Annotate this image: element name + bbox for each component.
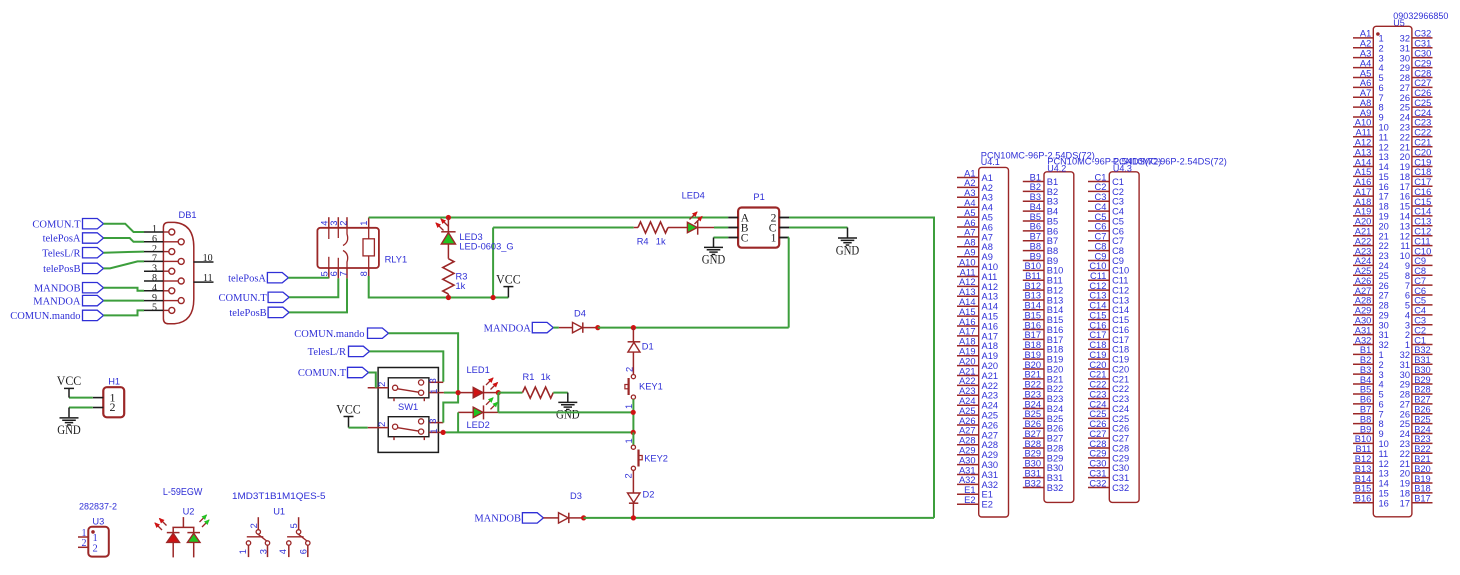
svg-text:A24: A24 [959, 396, 976, 406]
svg-text:A3: A3 [964, 188, 975, 198]
svg-text:A21: A21 [1355, 227, 1372, 237]
svg-text:C13: C13 [1414, 217, 1431, 227]
svg-text:A13: A13 [959, 287, 976, 297]
svg-text:C4: C4 [1112, 207, 1124, 217]
svg-text:C19: C19 [1112, 355, 1129, 365]
svg-text:26: 26 [1400, 409, 1410, 419]
svg-text:E1: E1 [982, 490, 993, 500]
svg-text:A23: A23 [959, 386, 976, 396]
svg-text:2: 2 [377, 422, 387, 427]
svg-text:B30: B30 [1047, 463, 1064, 473]
svg-text:C30: C30 [1112, 463, 1129, 473]
svg-text:B11: B11 [1025, 271, 1041, 281]
svg-text:B6: B6 [1360, 395, 1371, 405]
svg-text:C14: C14 [1112, 305, 1129, 315]
svg-text:C16: C16 [1414, 187, 1431, 197]
svg-text:B26: B26 [1024, 419, 1041, 429]
svg-text:A30: A30 [1355, 316, 1372, 326]
svg-text:20: 20 [1400, 152, 1410, 162]
svg-text:B27: B27 [1414, 395, 1431, 405]
svg-text:2: 2 [110, 400, 116, 414]
svg-text:11: 11 [203, 273, 213, 284]
svg-text:17: 17 [1400, 182, 1410, 192]
svg-text:1: 1 [1405, 340, 1410, 350]
svg-text:1k: 1k [456, 281, 466, 291]
svg-text:1: 1 [359, 221, 369, 226]
svg-text:C21: C21 [1112, 374, 1129, 384]
svg-text:A4: A4 [964, 198, 975, 208]
svg-text:B30: B30 [1024, 459, 1041, 469]
svg-text:D4: D4 [574, 309, 586, 319]
svg-text:1MD3T1B1M1QES-5: 1MD3T1B1M1QES-5 [232, 490, 326, 501]
svg-text:A29: A29 [982, 450, 999, 460]
svg-text:5: 5 [320, 271, 330, 276]
svg-text:COMUN.T: COMUN.T [298, 368, 347, 379]
svg-text:4: 4 [1379, 63, 1384, 73]
svg-text:A27: A27 [1355, 286, 1372, 296]
svg-text:MANDOA: MANDOA [484, 323, 532, 334]
svg-text:A9: A9 [1360, 108, 1371, 118]
svg-text:B22: B22 [1024, 380, 1041, 390]
svg-text:TelesL/R: TelesL/R [42, 248, 80, 259]
svg-text:A4: A4 [1360, 58, 1371, 68]
svg-text:C3: C3 [1414, 316, 1426, 326]
svg-text:22: 22 [1379, 241, 1389, 251]
svg-text:9: 9 [1379, 429, 1384, 439]
svg-text:C16: C16 [1089, 320, 1106, 330]
svg-text:A8: A8 [964, 238, 975, 248]
svg-text:A2: A2 [964, 178, 975, 188]
svg-text:29: 29 [1379, 310, 1389, 320]
svg-text:9: 9 [1405, 261, 1410, 271]
svg-text:A3: A3 [1360, 48, 1371, 58]
svg-text:2: 2 [1379, 360, 1384, 370]
svg-text:C31: C31 [1414, 39, 1431, 49]
svg-text:B22: B22 [1047, 384, 1064, 394]
svg-text:B20: B20 [1024, 360, 1041, 370]
svg-text:15: 15 [1400, 202, 1410, 212]
svg-text:A10: A10 [982, 262, 999, 272]
svg-text:8: 8 [359, 271, 369, 276]
svg-text:25: 25 [1379, 271, 1389, 281]
svg-text:C6: C6 [1414, 286, 1426, 296]
svg-text:C11: C11 [1112, 276, 1128, 286]
svg-text:24: 24 [1400, 113, 1410, 123]
svg-text:C13: C13 [1112, 295, 1129, 305]
svg-text:11: 11 [1400, 241, 1410, 251]
svg-text:C21: C21 [1414, 137, 1431, 147]
svg-text:A15: A15 [1355, 167, 1372, 177]
svg-text:4: 4 [1379, 380, 1384, 390]
svg-text:2: 2 [624, 473, 634, 478]
svg-text:A10: A10 [1355, 118, 1372, 128]
svg-text:C32: C32 [1414, 29, 1431, 39]
svg-text:C19: C19 [1089, 350, 1106, 360]
svg-text:C27: C27 [1089, 429, 1106, 439]
svg-text:C17: C17 [1414, 177, 1431, 187]
svg-text:A11: A11 [982, 272, 998, 282]
svg-text:29: 29 [1400, 380, 1410, 390]
svg-text:13: 13 [1379, 469, 1389, 479]
svg-text:A27: A27 [959, 426, 976, 436]
svg-text:6: 6 [329, 271, 339, 276]
svg-text:A16: A16 [982, 321, 999, 331]
svg-text:GND: GND [57, 422, 81, 437]
svg-text:C1: C1 [1112, 177, 1124, 187]
svg-text:1: 1 [429, 428, 439, 433]
svg-text:8: 8 [1379, 419, 1384, 429]
svg-text:B8: B8 [1047, 246, 1058, 256]
svg-text:A29: A29 [1355, 306, 1372, 316]
svg-text:E2: E2 [964, 495, 975, 505]
svg-text:C5: C5 [1095, 212, 1107, 222]
svg-text:U1: U1 [273, 506, 285, 516]
svg-text:C18: C18 [1414, 167, 1431, 177]
svg-text:C13: C13 [1089, 291, 1106, 301]
svg-text:B7: B7 [1030, 232, 1041, 242]
svg-text:B31: B31 [1024, 468, 1041, 478]
svg-text:B8: B8 [1030, 241, 1041, 251]
svg-text:E2: E2 [982, 500, 993, 510]
svg-text:B2: B2 [1360, 355, 1371, 365]
svg-text:B23: B23 [1024, 389, 1041, 399]
svg-text:A6: A6 [982, 222, 993, 232]
svg-text:A8: A8 [982, 242, 993, 252]
svg-text:5: 5 [289, 523, 299, 528]
svg-text:GND: GND [556, 407, 580, 422]
svg-text:B23: B23 [1047, 394, 1064, 404]
svg-text:B9: B9 [1030, 251, 1041, 261]
svg-text:A31: A31 [959, 465, 976, 475]
svg-text:A14: A14 [1355, 157, 1372, 167]
svg-text:B21: B21 [1047, 374, 1064, 384]
svg-text:A9: A9 [964, 248, 975, 258]
svg-text:A12: A12 [1355, 137, 1372, 147]
svg-text:12: 12 [1379, 459, 1389, 469]
svg-text:C29: C29 [1414, 58, 1431, 68]
svg-text:3: 3 [1379, 370, 1384, 380]
svg-text:B31: B31 [1414, 355, 1431, 365]
svg-text:24: 24 [1400, 429, 1410, 439]
svg-text:C30: C30 [1089, 459, 1106, 469]
svg-text:B20: B20 [1047, 364, 1064, 374]
svg-text:3: 3 [329, 221, 339, 226]
svg-text:3: 3 [258, 549, 268, 554]
svg-text:C29: C29 [1112, 453, 1129, 463]
svg-text:C25: C25 [1414, 98, 1431, 108]
svg-text:30: 30 [1400, 53, 1410, 63]
svg-text:A2: A2 [1360, 39, 1371, 49]
svg-text:2: 2 [625, 367, 635, 372]
svg-text:C3: C3 [1112, 197, 1124, 207]
svg-text:19: 19 [1400, 479, 1410, 489]
svg-text:A26: A26 [959, 416, 976, 426]
svg-text:27: 27 [1379, 291, 1389, 301]
svg-text:B19: B19 [1047, 355, 1064, 365]
svg-text:C14: C14 [1414, 207, 1431, 217]
svg-text:C9: C9 [1112, 256, 1124, 266]
svg-text:KEY1: KEY1 [639, 381, 663, 391]
svg-text:L-59EGW: L-59EGW [163, 487, 203, 498]
svg-text:A22: A22 [1355, 236, 1372, 246]
svg-text:C2: C2 [1112, 187, 1124, 197]
svg-text:A25: A25 [959, 406, 976, 416]
svg-text:C26: C26 [1089, 419, 1106, 429]
svg-text:A19: A19 [982, 351, 999, 361]
svg-text:A11: A11 [960, 267, 976, 277]
svg-text:B9: B9 [1360, 424, 1371, 434]
svg-text:A1: A1 [1360, 29, 1371, 39]
svg-text:C2: C2 [1414, 325, 1426, 335]
svg-text:A32: A32 [959, 475, 976, 485]
svg-text:18: 18 [1400, 172, 1410, 182]
svg-text:B22: B22 [1414, 444, 1431, 454]
svg-text:C1: C1 [1414, 335, 1426, 345]
svg-text:27: 27 [1400, 83, 1410, 93]
svg-text:32: 32 [1400, 34, 1410, 44]
svg-text:17: 17 [1379, 192, 1389, 202]
svg-text:5: 5 [152, 303, 157, 314]
svg-text:7: 7 [1405, 281, 1410, 291]
svg-text:C4: C4 [1095, 202, 1107, 212]
svg-text:B28: B28 [1047, 443, 1064, 453]
svg-text:3: 3 [428, 378, 438, 383]
svg-text:C23: C23 [1089, 389, 1106, 399]
svg-text:U4.1: U4.1 [981, 157, 1000, 167]
svg-text:B32: B32 [1024, 478, 1041, 488]
svg-text:C28: C28 [1414, 68, 1431, 78]
svg-text:C8: C8 [1112, 246, 1124, 256]
svg-text:B10: B10 [1047, 266, 1064, 276]
svg-text:4: 4 [278, 549, 288, 554]
svg-text:A14: A14 [982, 302, 999, 312]
svg-text:B24: B24 [1414, 424, 1431, 434]
svg-text:4: 4 [320, 221, 330, 226]
svg-text:A14: A14 [959, 297, 976, 307]
svg-text:12: 12 [1400, 231, 1410, 241]
svg-text:2: 2 [1405, 330, 1410, 340]
svg-text:15: 15 [1379, 172, 1389, 182]
svg-text:A27: A27 [982, 430, 999, 440]
svg-text:7: 7 [1379, 93, 1384, 103]
svg-text:A13: A13 [1355, 147, 1372, 157]
svg-text:A18: A18 [959, 337, 976, 347]
svg-text:A9: A9 [982, 252, 993, 262]
svg-text:B1: B1 [1047, 177, 1058, 187]
svg-text:C32: C32 [1089, 478, 1106, 488]
svg-text:B12: B12 [1024, 281, 1041, 291]
svg-text:A28: A28 [959, 436, 976, 446]
svg-text:C24: C24 [1089, 399, 1106, 409]
svg-text:LED-0603_G: LED-0603_G [459, 242, 513, 252]
svg-text:RLY1: RLY1 [385, 255, 408, 265]
svg-text:25: 25 [1400, 419, 1410, 429]
svg-text:A28: A28 [1355, 296, 1372, 306]
svg-text:A18: A18 [982, 341, 999, 351]
svg-text:31: 31 [1379, 330, 1389, 340]
svg-text:C25: C25 [1112, 414, 1129, 424]
svg-text:A7: A7 [1360, 88, 1371, 98]
svg-text:D3: D3 [570, 491, 582, 501]
svg-text:GND: GND [836, 242, 860, 257]
svg-text:C24: C24 [1414, 108, 1431, 118]
svg-text:C7: C7 [1414, 276, 1426, 286]
svg-text:10: 10 [203, 253, 213, 264]
svg-text:23: 23 [1400, 439, 1410, 449]
svg-text:A2: A2 [982, 183, 993, 193]
svg-text:2: 2 [82, 538, 87, 549]
svg-text:SW1: SW1 [398, 402, 418, 412]
svg-text:C22: C22 [1414, 128, 1431, 138]
svg-text:GND: GND [702, 252, 726, 267]
svg-text:26: 26 [1400, 93, 1410, 103]
svg-text:C20: C20 [1089, 360, 1106, 370]
svg-text:B4: B4 [1360, 375, 1371, 385]
svg-text:MANDOA: MANDOA [33, 296, 81, 307]
svg-text:A21: A21 [982, 371, 999, 381]
svg-text:R1: R1 [523, 372, 535, 382]
svg-text:10: 10 [1379, 123, 1389, 133]
svg-text:TelesL/R: TelesL/R [308, 347, 346, 358]
svg-text:1k: 1k [541, 372, 551, 382]
svg-text:5: 5 [1405, 301, 1410, 311]
svg-text:A26: A26 [982, 420, 999, 430]
svg-text:A17: A17 [982, 331, 999, 341]
svg-text:KEY2: KEY2 [644, 454, 668, 464]
svg-text:MANDOB: MANDOB [34, 283, 81, 294]
svg-text:A7: A7 [964, 228, 975, 238]
svg-text:VCC: VCC [57, 373, 82, 388]
svg-text:C19: C19 [1414, 157, 1431, 167]
svg-text:10: 10 [1379, 439, 1389, 449]
svg-text:A30: A30 [982, 460, 999, 470]
svg-text:B17: B17 [1414, 494, 1431, 504]
svg-text:B13: B13 [1024, 291, 1041, 301]
svg-text:A31: A31 [982, 470, 999, 480]
svg-text:LED1: LED1 [467, 365, 490, 375]
svg-text:21: 21 [1400, 142, 1410, 152]
svg-text:A25: A25 [982, 411, 999, 421]
svg-text:A25: A25 [1355, 266, 1372, 276]
svg-text:C15: C15 [1414, 197, 1431, 207]
svg-text:28: 28 [1379, 301, 1389, 311]
svg-text:B29: B29 [1047, 453, 1064, 463]
svg-text:LED4: LED4 [682, 190, 705, 200]
svg-text:H1: H1 [108, 377, 120, 387]
svg-text:VCC: VCC [336, 401, 361, 416]
svg-text:17: 17 [1400, 498, 1410, 508]
svg-text:30: 30 [1400, 370, 1410, 380]
svg-text:C30: C30 [1414, 48, 1431, 58]
svg-text:A1: A1 [964, 168, 975, 178]
svg-text:A26: A26 [1355, 276, 1372, 286]
svg-text:C26: C26 [1414, 88, 1431, 98]
svg-text:18: 18 [1379, 202, 1389, 212]
svg-text:B25: B25 [1047, 414, 1064, 424]
svg-text:B25: B25 [1414, 414, 1431, 424]
svg-text:21: 21 [1400, 459, 1410, 469]
svg-text:B11: B11 [1355, 444, 1371, 454]
svg-text:6: 6 [1405, 291, 1410, 301]
svg-text:C16: C16 [1112, 325, 1129, 335]
svg-text:C32: C32 [1112, 483, 1129, 493]
svg-text:VCC: VCC [496, 271, 521, 286]
svg-text:A21: A21 [959, 366, 976, 376]
svg-text:B26: B26 [1047, 424, 1064, 434]
svg-text:A10: A10 [959, 257, 976, 267]
svg-text:5: 5 [1379, 73, 1384, 83]
svg-text:20: 20 [1400, 469, 1410, 479]
svg-text:C26: C26 [1112, 424, 1129, 434]
svg-text:B1: B1 [1360, 345, 1371, 355]
svg-text:21: 21 [1379, 231, 1389, 241]
svg-text:C28: C28 [1089, 439, 1106, 449]
svg-text:B6: B6 [1030, 222, 1041, 232]
svg-text:C5: C5 [1414, 296, 1426, 306]
svg-text:15: 15 [1379, 488, 1389, 498]
svg-text:C31: C31 [1112, 473, 1129, 483]
svg-text:B18: B18 [1024, 340, 1041, 350]
svg-text:32: 32 [1379, 340, 1389, 350]
svg-text:31: 31 [1400, 43, 1410, 53]
svg-text:C17: C17 [1112, 335, 1129, 345]
svg-text:C12: C12 [1414, 227, 1431, 237]
svg-text:B16: B16 [1024, 320, 1041, 330]
svg-text:6: 6 [1379, 399, 1384, 409]
svg-text:B12: B12 [1355, 454, 1372, 464]
svg-text:B7: B7 [1360, 405, 1371, 415]
svg-text:A16: A16 [1355, 177, 1372, 187]
svg-text:D2: D2 [643, 489, 655, 499]
svg-text:C10: C10 [1089, 261, 1106, 271]
svg-text:A5: A5 [964, 208, 975, 218]
svg-text:2: 2 [249, 523, 259, 528]
svg-text:A30: A30 [959, 455, 976, 465]
svg-text:A18: A18 [1355, 197, 1372, 207]
svg-text:C24: C24 [1112, 404, 1129, 414]
svg-text:B10: B10 [1024, 261, 1041, 271]
svg-text:C7: C7 [1095, 232, 1107, 242]
svg-text:B24: B24 [1024, 399, 1041, 409]
svg-text:282837-2: 282837-2 [79, 501, 117, 511]
svg-text:B29: B29 [1414, 375, 1431, 385]
svg-text:A22: A22 [959, 376, 976, 386]
svg-text:28: 28 [1400, 73, 1410, 83]
svg-text:5: 5 [1379, 390, 1384, 400]
svg-text:B5: B5 [1360, 385, 1371, 395]
svg-text:14: 14 [1379, 162, 1389, 172]
svg-text:C21: C21 [1089, 370, 1106, 380]
svg-text:A12: A12 [959, 277, 976, 287]
svg-text:28: 28 [1400, 390, 1410, 400]
svg-text:3: 3 [428, 419, 438, 424]
svg-text:B17: B17 [1047, 335, 1064, 345]
svg-text:C11: C11 [1414, 236, 1430, 246]
svg-text:telePosA: telePosA [228, 273, 266, 284]
svg-text:C5: C5 [1112, 216, 1124, 226]
svg-text:C6: C6 [1095, 222, 1107, 232]
svg-text:A22: A22 [982, 381, 999, 391]
svg-text:C9: C9 [1095, 251, 1107, 261]
svg-text:C31: C31 [1089, 468, 1106, 478]
svg-text:C8: C8 [1095, 241, 1107, 251]
svg-text:B32: B32 [1414, 345, 1431, 355]
svg-text:2: 2 [339, 221, 349, 226]
svg-text:C11: C11 [1090, 271, 1106, 281]
svg-text:B25: B25 [1024, 409, 1041, 419]
svg-text:A19: A19 [1355, 207, 1372, 217]
svg-text:A17: A17 [959, 327, 976, 337]
